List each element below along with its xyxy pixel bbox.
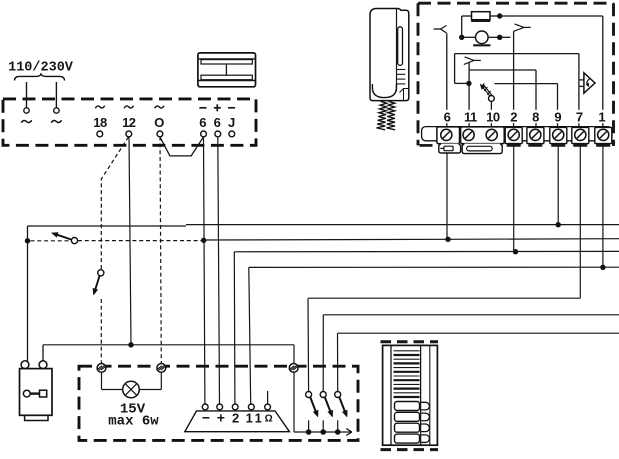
svg-text:O: O <box>154 115 164 130</box>
svg-text:7: 7 <box>576 110 583 125</box>
svg-text:max 6w: max 6w <box>108 413 159 429</box>
svg-text:2: 2 <box>510 110 517 125</box>
svg-text:1: 1 <box>255 411 262 426</box>
svg-text:6: 6 <box>444 110 451 125</box>
svg-text:J: J <box>228 115 235 130</box>
svg-text:Ω: Ω <box>265 414 273 425</box>
svg-text:6: 6 <box>214 115 221 130</box>
svg-text:−: − <box>202 410 210 426</box>
svg-text:8: 8 <box>532 110 539 125</box>
svg-text:12: 12 <box>122 115 136 130</box>
svg-text:11: 11 <box>464 110 477 125</box>
svg-text:10: 10 <box>486 110 500 125</box>
svg-text:2: 2 <box>232 411 239 426</box>
svg-text:18: 18 <box>93 115 107 130</box>
svg-text:1: 1 <box>246 411 253 426</box>
svg-text:+: + <box>217 410 225 426</box>
svg-text:9: 9 <box>554 110 561 125</box>
svg-text:6: 6 <box>199 115 206 130</box>
svg-text:1: 1 <box>598 110 605 125</box>
